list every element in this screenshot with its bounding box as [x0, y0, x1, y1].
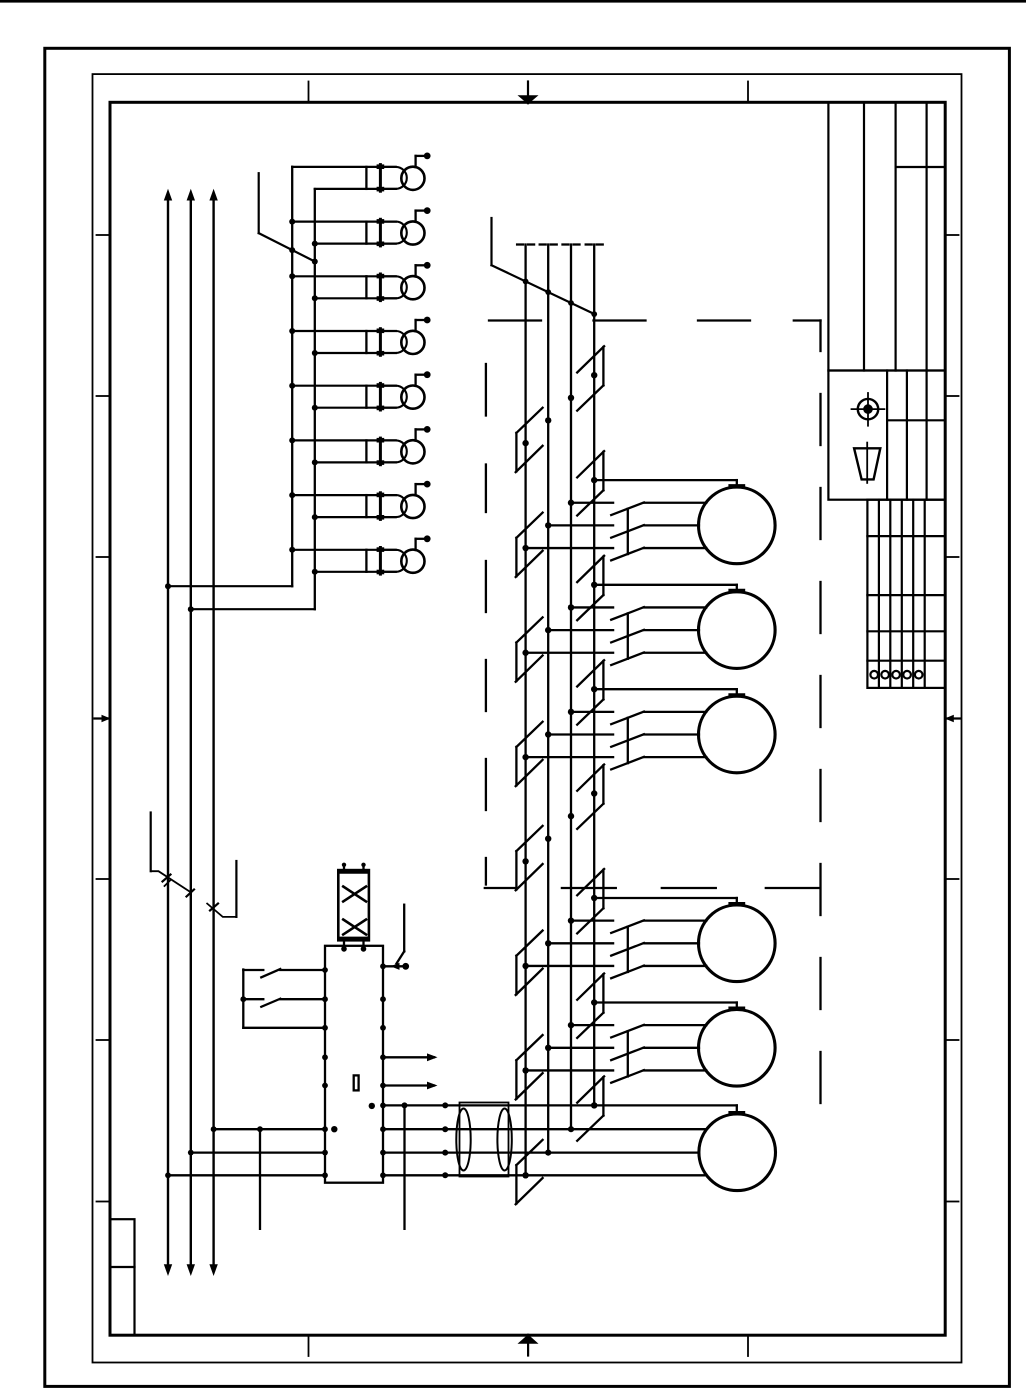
motor M5 phase wire stub 1 [571, 1024, 613, 1026]
enclosure dashed right edge [819, 321, 821, 352]
lower grid column line 5 [924, 500, 926, 688]
supply line L1 top arrowhead [164, 189, 172, 201]
motor M1 phase wire 1 [644, 502, 706, 504]
tap down stub left [259, 1129, 261, 1229]
lower grid column line 3 [901, 500, 903, 688]
motor M1 neutral wire [594, 479, 737, 481]
feeder cable marker dots [442, 1102, 448, 1108]
motor M4 phase wire stub 2 [548, 942, 613, 944]
supply line L3 [212, 197, 214, 1266]
enclosure dashed left edge [485, 364, 487, 416]
tap junction M1 on riser R2 [545, 522, 551, 528]
junction blade / riser [523, 279, 529, 285]
disconnect QS2 blade [207, 903, 237, 917]
motor M4 phase wire 2 [644, 942, 699, 944]
isolator QC1 on riser R1 [516, 826, 543, 890]
lamp circuit 4 upper wire [292, 330, 396, 332]
lighting bus B bottom wire to L2 [191, 608, 315, 610]
lamp 2 fuse body [380, 222, 406, 244]
breaker QF5.4 on riser R1 [516, 1035, 543, 1099]
feeder line 4 to motor M6 [383, 1174, 706, 1176]
contactor blade M4.1 [611, 920, 644, 933]
breaker QF1.1 on riser R4 [577, 451, 604, 515]
lower grid circle 1 [870, 671, 878, 679]
riser R4 top cap (dashed) [586, 243, 592, 245]
motor M3 phase wire stub 1 [571, 711, 613, 713]
contactor linkage M1 [627, 509, 629, 554]
lamp circuit 6 lower wire [315, 461, 396, 463]
lamp 7 fuse body [380, 495, 406, 517]
junction bus A / lamp 3 [289, 273, 295, 279]
motor M5 phase wire 3 [644, 1069, 706, 1071]
centering arrow bottom (points up) [527, 1335, 529, 1356]
lamp 6 fuse body [380, 440, 406, 462]
lamp 8 switch stub [414, 539, 416, 550]
supply tap 3 from L1 [168, 1174, 325, 1176]
tap junction M4 on riser R2 [545, 940, 551, 946]
breaker QF4.4 on riser R1 [516, 931, 543, 995]
tap junction M4 on riser R3 [568, 917, 574, 923]
isolator QC4 on riser R4 [577, 765, 604, 829]
lamp circuit 3 lower wire [315, 297, 396, 299]
tap junction M2 on riser R2 [545, 627, 551, 633]
title block vertical divider 2 [894, 102, 896, 370]
lighting bus A bottom wire to L1 [168, 585, 292, 587]
QS2 contact tick on L3 [210, 904, 218, 911]
fold tick top x=308.5 [308, 82, 310, 103]
QS1 contact tick on L2 [187, 890, 195, 897]
lamp circuit 5 upper wire [292, 385, 396, 387]
contactor blade M4.3 [611, 966, 644, 979]
board spare feeder arrow 1 [383, 1056, 434, 1058]
motor M5 phase wire 2 [644, 1047, 699, 1049]
frame stamp box bottom-left [110, 1219, 135, 1335]
motor M1 phase wire 2 [644, 524, 699, 526]
loop wire 1 with switch [243, 969, 263, 971]
motor M2 phase wire 2 [644, 629, 699, 631]
junction bus B / lamp 7 [312, 514, 318, 520]
symbol cell right column line 2 [925, 371, 927, 500]
lamp 7 switch dot [424, 481, 431, 488]
lamp 5 lamp circle EL5 [401, 386, 424, 409]
meter bottom stubs into board [343, 940, 345, 946]
meter top stubs [343, 865, 345, 871]
fold tick left y=1040 [97, 1039, 111, 1041]
motor M4 phase wire stub 1 [571, 920, 613, 922]
contactor blade M3.2 [611, 734, 644, 747]
supply line L3 bottom arrowhead [209, 1264, 217, 1276]
lamp 3 fuse contact bar [379, 274, 382, 301]
breaker QF4.1 on riser R4 [577, 869, 604, 933]
lamp 8 fuse body [380, 550, 406, 572]
supply line L2 top arrowhead [187, 189, 195, 201]
lighting group switch blade QS-L [259, 233, 315, 261]
board inner door mark [354, 1075, 359, 1090]
lower grid circle 2 [881, 671, 889, 679]
motor M3 phase wire 1 [644, 711, 706, 713]
junction blade / riser [568, 300, 574, 306]
motor M4 phase wire 1 [644, 920, 706, 922]
junction bus B / lamp 5 [312, 405, 318, 411]
disconnect QS1 blade [151, 871, 191, 892]
frame stamp box divider [110, 1266, 135, 1268]
breaker QF1.4 on riser R1 [516, 513, 543, 577]
contactor blade M1.3 [611, 548, 644, 561]
motor M6 [699, 1114, 776, 1191]
breaker QF3.4 on riser R1 [516, 722, 543, 786]
motor M5 terminal bar [730, 1007, 744, 1010]
lamp circuit 8 lower wire [315, 571, 396, 573]
centering arrow top (points down) [527, 82, 529, 104]
lamp circuit 2 lower wire [315, 243, 396, 245]
lamp 3 switch stub [414, 265, 416, 276]
motor M3 terminal bar [730, 693, 744, 696]
projection cone symbol [854, 448, 880, 479]
motor M5 phase wire stub 3 [526, 1069, 614, 1071]
lamp 3 fuse body [380, 276, 406, 298]
tap junction M3 on riser R2 [545, 731, 551, 737]
lamp circuit 2 upper wire [292, 221, 396, 223]
fold tick left y=396 [97, 395, 111, 397]
motor M2 neutral wire [594, 584, 737, 586]
centering arrow right (points left) [946, 717, 961, 719]
contactor blade M3.1 [611, 712, 644, 725]
cable sleeve symbol [460, 1103, 509, 1177]
motor M5 phase wire stub 2 [548, 1047, 613, 1049]
contactor blade M5.1 [611, 1025, 644, 1038]
fold tick right y=235 [945, 234, 958, 236]
lamp 4 lamp circle EL4 [401, 331, 424, 354]
breaker QF6.1 on riser R4 [577, 1076, 604, 1140]
junction bus A / lamp 6 [289, 437, 295, 443]
board spare feeder arrow 2 [383, 1084, 434, 1086]
motor M3 phase wire 3 [644, 756, 706, 758]
lower grid row line 4 [867, 660, 945, 662]
riser bus R3 [570, 245, 572, 1130]
lamp circuit 1 lower wire [315, 188, 396, 190]
motor M5 neutral wire [594, 1001, 737, 1003]
lamp circuit 1 upper wire [292, 166, 396, 168]
junction blade / bus B [312, 259, 318, 265]
riser bus R4 [593, 245, 595, 1106]
motor M3 [699, 696, 776, 773]
meter feed arrow into board [403, 905, 405, 952]
motor M5 phase wire 1 [644, 1024, 706, 1026]
isolator point QA3 on riser R3 [568, 395, 574, 401]
motor M4 neutral wire [594, 897, 737, 899]
fold tick right y=879 [945, 878, 958, 880]
motor M4 phase wire 3 [644, 965, 706, 967]
junction bus B / lamp 2 [312, 241, 318, 247]
lower grid row line 1 [867, 535, 945, 537]
junction blade / bus A [289, 247, 295, 253]
enclosure dashed top edge [489, 319, 541, 321]
junction bus B / lamp 4 [312, 350, 318, 356]
lamp 2 lamp circle EL2 [401, 221, 424, 244]
junction L1 / bus A wire [165, 583, 171, 589]
lighting bus B [314, 189, 316, 609]
motor M2 phase wire stub 1 [571, 606, 613, 608]
board inner dots [369, 1103, 375, 1109]
supply tap 1 from L3 [214, 1128, 325, 1130]
breaker QF3.1 on riser R4 [577, 660, 604, 724]
loop wire 3 [243, 1027, 325, 1029]
meter element above board [338, 870, 369, 940]
lamp 7 switch stub [414, 484, 416, 495]
junction bus B / lamp 8 [312, 569, 318, 575]
lamp 2 fuse holder bar [365, 222, 367, 244]
QS1 contact tick on L1 [163, 875, 171, 882]
lamp 3 fuse holder bar [365, 276, 367, 298]
lamp 4 switch dot [424, 317, 431, 324]
middle sheet border [93, 74, 962, 1362]
fold tick right y=1201.5 [945, 1201, 958, 1203]
isolator QA1 on riser R1 [516, 408, 543, 472]
lower grid circle 3 [892, 671, 900, 679]
junction bus A / lamp 4 [289, 328, 295, 334]
contactor blade M4.2 [611, 943, 644, 956]
motor M4 [699, 905, 776, 982]
feeder line 2 to motor M6 [383, 1128, 706, 1130]
lamp circuit 3 upper wire [292, 275, 396, 277]
feeder junction dots at risers [591, 1102, 597, 1108]
fold tick bottom x=308.5 [308, 1335, 310, 1356]
lower grid row line 3 [867, 630, 945, 632]
loop wire 2 with switch [243, 998, 263, 1000]
breaker QF6.4 on riser R1 [516, 1140, 543, 1204]
lamp 1 fuse body [380, 167, 406, 189]
contactor blade M5.2 [611, 1048, 644, 1061]
lamp 1 fuse holder bar [365, 167, 367, 189]
lamp 8 fuse contact bar [379, 548, 382, 575]
feeder line 3 to motor M6 [383, 1151, 699, 1153]
title block vertical divider 3 [925, 102, 927, 370]
fold tick left y=235 [97, 234, 111, 236]
motor M1 phase wire stub 2 [548, 524, 613, 526]
lower grid row line 2 [867, 594, 945, 596]
lower grid column line 4 [912, 500, 914, 688]
supply line L3 top arrowhead [209, 189, 217, 201]
supply line L1 bottom arrowhead [164, 1264, 172, 1276]
motor M2 phase wire 3 [644, 652, 706, 654]
breaker QF5.1 on riser R4 [577, 974, 604, 1038]
lamp 5 switch dot [424, 371, 431, 378]
symbol cell divider [886, 371, 888, 500]
riser group feeder stub [490, 218, 492, 265]
centering arrow left (points right) [95, 717, 110, 719]
contactor blade M2.3 [611, 652, 644, 665]
lamp 6 lamp circle EL6 [401, 440, 424, 463]
fold tick top x=748 [747, 82, 749, 103]
junction bus B / lamp 6 [312, 459, 318, 465]
motor M4 terminal bar [730, 902, 744, 905]
breaker QF2.4 on riser R1 [516, 617, 543, 681]
tap junction M3 on riser R3 [568, 709, 574, 715]
riser bus R1 [524, 245, 526, 1176]
board edge junction dots [322, 1054, 328, 1060]
junction blade / riser [591, 311, 597, 317]
contactor linkage M3 [627, 718, 629, 763]
junction bus B / lamp 3 [312, 295, 318, 301]
title block main field [828, 102, 945, 370]
tap junction M1 on riser R3 [568, 500, 574, 506]
supply line L2 bottom arrowhead [187, 1264, 195, 1276]
motor M2 [699, 592, 776, 669]
meter X pattern lower [343, 920, 366, 935]
board left switch loop [242, 970, 244, 1028]
lamp 1 switch dot [424, 153, 431, 160]
supply line L2 [190, 197, 192, 1266]
isolator point QC3 on riser R3 [568, 813, 574, 819]
enclosure dashed bottom edge [562, 887, 616, 889]
motor M5 [699, 1010, 776, 1087]
meter X pattern upper [343, 887, 366, 902]
distribution board [325, 946, 383, 1183]
title block lower grid [867, 500, 945, 688]
breaker QF2.1 on riser R4 [577, 556, 604, 620]
lamp 7 lamp circle EL7 [401, 495, 424, 518]
lamp 4 switch stub [414, 320, 416, 331]
motor M6 neutral wire [383, 1104, 737, 1106]
title block horizontal divider [896, 166, 946, 168]
motor M1 terminal bar [730, 484, 744, 487]
registration target symbol [858, 399, 878, 419]
lamp 4 fuse body [380, 331, 406, 353]
lamp 3 lamp circle EL3 [401, 276, 424, 299]
tap junction M5 on riser R3 [568, 1022, 574, 1028]
motor M3 phase wire stub 3 [526, 756, 614, 758]
riser R2 top cap (dashed) [540, 243, 546, 245]
junction bus A / lamp 8 [289, 547, 295, 553]
contactor blade M3.3 [611, 757, 644, 770]
lamp 5 switch stub [414, 375, 416, 386]
junction blade / riser [545, 289, 551, 295]
lamp circuit 7 lower wire [315, 516, 396, 518]
isolator point QA2 on riser R2 [545, 417, 551, 423]
junction bus A / lamp 2 [289, 219, 295, 225]
fold tick left y=557 [97, 556, 111, 558]
contactor linkage M4 [627, 927, 629, 972]
tap junction M5 on riser R2 [545, 1045, 551, 1051]
disconnect QS2 stem [235, 861, 237, 917]
contactor blade M5.3 [611, 1070, 644, 1083]
junction bus A / lamp 5 [289, 383, 295, 389]
symbol cell right column line 1 [906, 371, 908, 500]
motor M1 [699, 487, 776, 564]
lamp circuit 8 upper wire [292, 549, 396, 551]
lamp 8 lamp circle EL8 [401, 550, 424, 573]
motor M1 phase wire stub 3 [526, 547, 614, 549]
isolator QA4 on riser R4 [577, 346, 604, 410]
motor M4 phase wire stub 3 [526, 965, 614, 967]
contactor blade M2.2 [611, 630, 644, 643]
lower grid circle 4 [903, 671, 911, 679]
riser R1 top cap (dashed) [517, 243, 523, 245]
fold tick right y=396 [945, 395, 958, 397]
lamp 6 switch stub [414, 429, 416, 440]
lighting feeder stub [258, 173, 260, 233]
riser group switch blade QS-M [492, 265, 595, 314]
lamp circuit 4 lower wire [315, 352, 396, 354]
motor M3 phase wire 2 [644, 733, 699, 735]
lamp 2 switch stub [414, 211, 416, 222]
fold tick left y=1201.5 [97, 1201, 111, 1203]
lamp 8 fuse holder bar [365, 550, 367, 572]
lamp 2 switch dot [424, 207, 431, 214]
title block symbol cell [828, 371, 945, 500]
lamp 8 switch dot [424, 535, 431, 542]
motor M2 phase wire stub 2 [548, 629, 613, 631]
lamp 4 fuse holder bar [365, 331, 367, 353]
lamp 7 fuse contact bar [379, 493, 382, 520]
lamp 6 fuse contact bar [379, 438, 382, 465]
fold tick bottom x=748 [747, 1335, 749, 1356]
motor M1 phase wire stub 1 [571, 502, 613, 504]
contactor blade M1.1 [611, 502, 644, 515]
lamp 6 fuse holder bar [365, 440, 367, 462]
motor M2 terminal bar [730, 589, 744, 592]
fold tick right y=557 [945, 556, 958, 558]
lamp 1 lamp circle EL1 [401, 167, 424, 190]
junction L2 / bus B wire [188, 606, 194, 612]
lamp 1 fuse contact bar [379, 165, 382, 192]
lamp 7 fuse holder bar [365, 495, 367, 517]
title block vertical divider 1 [863, 102, 865, 370]
fold tick right y=1040 [945, 1039, 958, 1041]
symbol cell right horizontal divider [887, 419, 945, 421]
lamp 1 switch stub [414, 156, 416, 167]
lamp 4 fuse contact bar [379, 329, 382, 356]
lower grid circle 5 [915, 671, 923, 679]
lamp circuit 6 upper wire [292, 439, 396, 441]
lamp 5 fuse holder bar [365, 386, 367, 408]
tap junction M2 on riser R3 [568, 604, 574, 610]
contactor linkage M2 [627, 613, 629, 658]
lamp 2 fuse contact bar [379, 219, 382, 246]
lamp 5 fuse contact bar [379, 383, 382, 410]
enclosure dashed bottom-left corner [485, 887, 516, 889]
motor M2 phase wire stub 3 [526, 652, 614, 654]
lamp 5 fuse body [380, 386, 406, 408]
lamp 3 switch dot [424, 262, 431, 269]
lamp circuit 7 upper wire [292, 494, 396, 496]
lamp circuit 5 lower wire [315, 407, 396, 409]
isolator point QC2 on riser R2 [545, 836, 551, 842]
lamp 6 switch dot [424, 426, 431, 433]
motor M1 phase wire 3 [644, 547, 706, 549]
junction bus A / lamp 7 [289, 492, 295, 498]
feeder down stub right [403, 1105, 405, 1228]
motor M6 terminal bar [730, 1111, 744, 1114]
contactor linkage M5 [627, 1031, 629, 1076]
motor M3 phase wire stub 2 [548, 733, 613, 735]
supply line L1 [167, 197, 169, 1266]
fold tick left y=879 [97, 878, 111, 880]
inner drawing frame [110, 102, 945, 1335]
motor M2 phase wire 1 [644, 606, 706, 608]
supply tap 2 from L2 [191, 1151, 325, 1153]
riser bus R2 [547, 245, 549, 1153]
motor M3 neutral wire [594, 688, 737, 690]
lower grid column line 1 [878, 500, 880, 688]
lower grid column line 2 [889, 500, 891, 688]
lighting bus A [291, 167, 293, 586]
contactor blade M2.1 [611, 607, 644, 620]
page top edge bar [0, 0, 1026, 3]
contactor blade M1.2 [611, 525, 644, 538]
disconnect QS1 stem [150, 813, 152, 872]
riser R3 top cap (dashed) [563, 243, 569, 245]
